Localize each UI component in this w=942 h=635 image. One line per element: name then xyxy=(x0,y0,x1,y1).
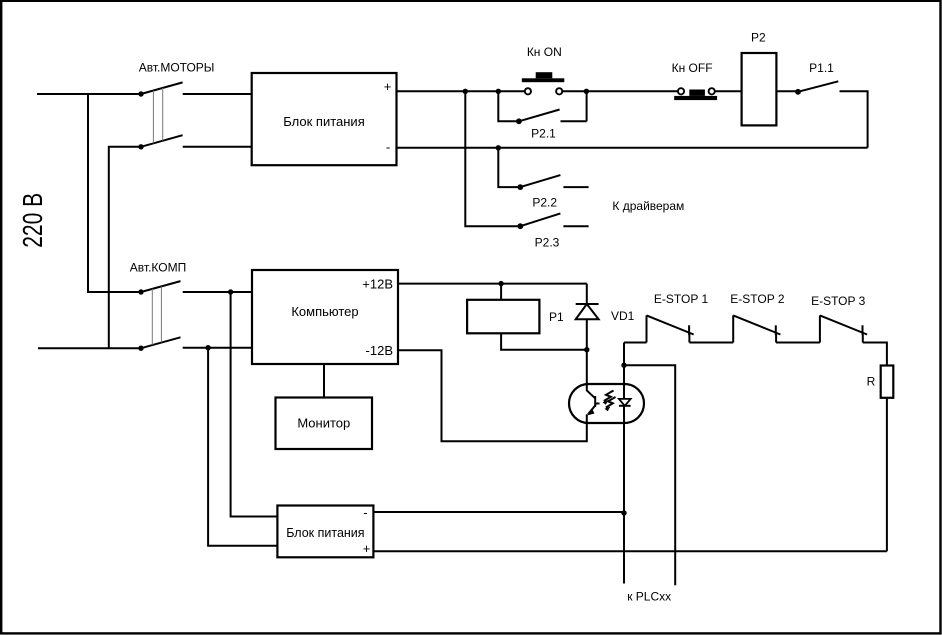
svg-text:Монитор: Монитор xyxy=(297,416,350,431)
svg-text:-12В: -12В xyxy=(366,343,393,358)
wire branch up to Авт.МОТОРЫ bottom xyxy=(109,147,140,348)
diode VD1 xyxy=(576,284,635,384)
contact P2.3 xyxy=(517,213,588,249)
monitor box Монитор xyxy=(276,398,373,450)
pushbutton Кн OFF xyxy=(672,61,717,100)
node junction dot A xyxy=(463,89,468,94)
computer box Компьютер xyxy=(252,270,398,364)
power supply U1 Блок питания (top) xyxy=(252,73,397,165)
wire minus rail xyxy=(397,147,868,149)
pushbutton Кн ON xyxy=(522,45,565,94)
wire estop segment 1-2 xyxy=(689,342,733,344)
node junction dot B xyxy=(496,89,501,94)
switch E-STOP 2 xyxy=(730,292,785,343)
svg-text:P2.1: P2.1 xyxy=(531,126,556,140)
svg-text:Авт.КОМП: Авт.КОМП xyxy=(130,261,186,275)
optocoupler U2 xyxy=(569,384,644,423)
power supply U3 Блок питания (bottom) xyxy=(277,505,373,557)
relay coil P1 xyxy=(467,284,587,350)
svg-text:к PLCxx: к PLCxx xyxy=(627,590,671,604)
wire estop-net to PLC xyxy=(624,365,675,585)
wire P1.1 right return corner xyxy=(840,91,868,148)
svg-text:Блок питания: Блок питания xyxy=(286,526,364,540)
LED xyxy=(619,399,631,406)
svg-text:Блок питания: Блок питания xyxy=(283,114,364,129)
wire LED bottom pin to PLC xyxy=(623,406,625,584)
svg-text:P2: P2 xyxy=(751,31,766,45)
svg-text:E-STOP 1: E-STOP 1 xyxy=(654,292,709,306)
svg-text:R: R xyxy=(867,375,876,389)
svg-text:P2.3: P2.3 xyxy=(535,236,560,250)
wire branch down to Авт.КОМП top xyxy=(88,94,140,292)
svg-text:-: - xyxy=(363,505,367,520)
wire computer to monitor xyxy=(323,364,325,398)
wire top 220V feed xyxy=(37,93,141,95)
svg-text:К драйверам: К драйверам xyxy=(612,199,684,213)
wire AC feed 1 to PSU2 xyxy=(231,292,278,517)
contact P1.1 xyxy=(795,61,838,95)
svg-text:P2.2: P2.2 xyxy=(532,196,557,210)
node dot on +12V xyxy=(498,281,503,286)
node junction dot C xyxy=(496,145,501,150)
switch E-STOP 1 xyxy=(647,292,709,342)
wire AC feed 2 to PSU2 xyxy=(208,348,277,546)
svg-text:+: + xyxy=(384,79,392,94)
resistor R xyxy=(867,366,894,398)
light arrows xyxy=(604,391,614,402)
wire LED top pin xyxy=(623,343,625,400)
wire P2.3 branch from plus node xyxy=(465,91,520,226)
svg-text:220 В: 220 В xyxy=(17,193,48,248)
contact P2.2 xyxy=(498,148,588,210)
wire resistor down xyxy=(886,398,888,552)
svg-text:Кн ON: Кн ON xyxy=(527,45,562,59)
svg-text:VD1: VD1 xyxy=(611,309,635,323)
node dot PSU2 minus join xyxy=(621,510,626,515)
transistor phototransistor xyxy=(587,384,595,398)
wire -12V route xyxy=(398,350,587,441)
wire P2 to P1.1 xyxy=(776,90,798,92)
switch E-STOP 3 xyxy=(811,294,867,343)
wire plus rail xyxy=(397,90,525,92)
breaker QF2 Авт.КОМП xyxy=(130,261,252,351)
wire estop to resistor xyxy=(863,343,887,366)
wire OFF to P2 coil xyxy=(715,90,742,92)
wire estop segment 2-3 xyxy=(776,342,820,344)
svg-text:P1.1: P1.1 xyxy=(809,61,834,75)
svg-text:+12В: +12В xyxy=(362,277,393,292)
svg-text:Кн OFF: Кн OFF xyxy=(672,61,713,75)
contact P2.1 xyxy=(498,89,589,141)
wire estop baseline left xyxy=(624,342,647,344)
svg-text:-: - xyxy=(386,140,390,155)
svg-text:Компьютер: Компьютер xyxy=(291,304,358,319)
wire PSU2 minus xyxy=(373,511,624,513)
svg-text:P1: P1 xyxy=(549,310,564,324)
node dot plus-minus junction xyxy=(584,347,589,352)
node dot on computer top feed xyxy=(228,289,233,294)
wire PSU2 plus xyxy=(373,550,887,552)
svg-text:E-STOP 3: E-STOP 3 xyxy=(811,294,866,308)
node dot on computer bottom feed xyxy=(205,345,210,350)
wire bottom 220V feed xyxy=(38,347,141,349)
node dot LED top xyxy=(621,363,626,368)
wire between ON and OFF xyxy=(562,90,678,92)
relay coil P2 xyxy=(742,31,777,126)
svg-text:E-STOP 2: E-STOP 2 xyxy=(730,292,785,306)
svg-text:Авт.МОТОРЫ: Авт.МОТОРЫ xyxy=(139,61,215,75)
svg-text:+: + xyxy=(363,541,371,556)
wire +12V rail xyxy=(398,283,587,285)
breaker QF1 Авт.МОТОРЫ xyxy=(138,61,251,150)
